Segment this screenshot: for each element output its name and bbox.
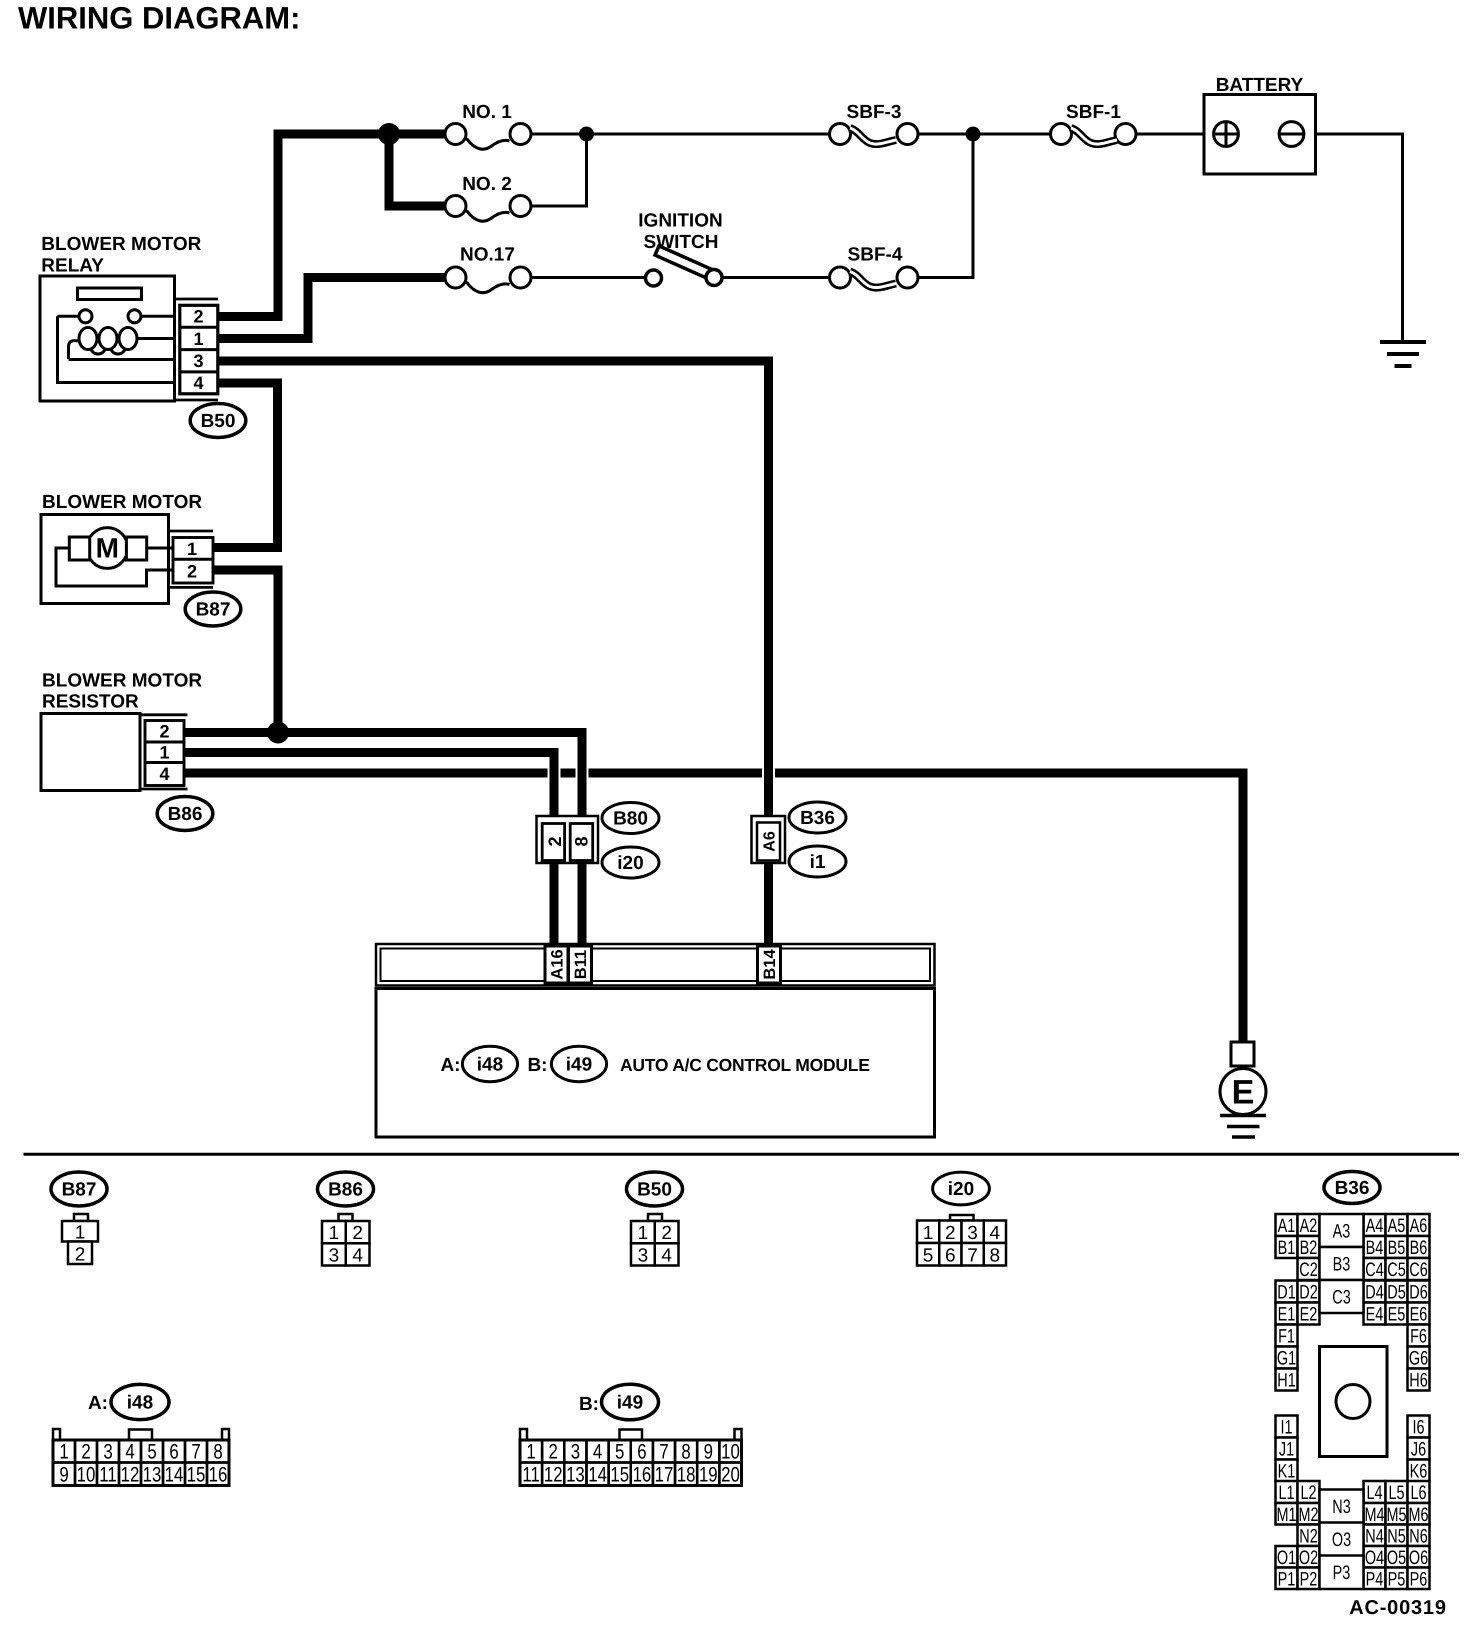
svg-text:SWITCH: SWITCH	[644, 232, 719, 253]
svg-text:3: 3	[967, 1223, 978, 1244]
svg-text:B87: B87	[196, 600, 231, 621]
svg-text:3: 3	[103, 1441, 112, 1464]
svg-text:15: 15	[610, 1464, 629, 1487]
svg-text:14: 14	[588, 1464, 607, 1487]
svg-text:3: 3	[329, 1245, 340, 1266]
svg-text:E2: E2	[1300, 1304, 1318, 1326]
svg-text:NO. 1: NO. 1	[462, 102, 512, 123]
svg-text:8: 8	[572, 836, 592, 846]
svg-text:8: 8	[990, 1245, 1001, 1266]
svg-text:4: 4	[193, 373, 203, 393]
svg-text:AC-00319: AC-00319	[1349, 1597, 1447, 1619]
svg-text:4: 4	[593, 1441, 603, 1464]
svg-text:16: 16	[633, 1464, 652, 1487]
svg-text:2: 2	[81, 1441, 90, 1464]
svg-text:N5: N5	[1387, 1525, 1406, 1547]
svg-text:O1: O1	[1277, 1547, 1296, 1569]
svg-text:1: 1	[638, 1223, 649, 1244]
svg-text:B50: B50	[637, 1180, 672, 1201]
svg-text:SBF-4: SBF-4	[848, 245, 903, 266]
svg-text:C3: C3	[1332, 1287, 1350, 1309]
svg-text:L1: L1	[1278, 1482, 1294, 1504]
svg-text:IGNITION: IGNITION	[638, 211, 722, 232]
svg-text:2: 2	[193, 307, 203, 327]
svg-text:L2: L2	[1300, 1482, 1316, 1504]
svg-text:G1: G1	[1277, 1348, 1296, 1370]
svg-text:E5: E5	[1388, 1304, 1406, 1326]
svg-text:14: 14	[165, 1464, 184, 1487]
svg-text:D5: D5	[1387, 1282, 1406, 1304]
svg-text:B4: B4	[1366, 1237, 1384, 1259]
svg-text:2: 2	[187, 561, 197, 581]
svg-text:AUTO A/C CONTROL MODULE: AUTO A/C CONTROL MODULE	[620, 1055, 870, 1075]
svg-text:1: 1	[329, 1223, 340, 1244]
svg-text:B86: B86	[168, 804, 203, 825]
svg-text:5: 5	[615, 1441, 624, 1464]
svg-text:A5: A5	[1388, 1215, 1406, 1237]
svg-text:A6: A6	[761, 831, 778, 852]
svg-text:I1: I1	[1280, 1417, 1292, 1439]
svg-text:5: 5	[147, 1441, 156, 1464]
svg-text:B11: B11	[572, 950, 590, 979]
svg-text:A16: A16	[548, 949, 566, 979]
svg-text:B36: B36	[800, 808, 835, 829]
svg-text:P1: P1	[1278, 1568, 1296, 1590]
svg-text:10: 10	[77, 1464, 96, 1487]
svg-text:B5: B5	[1388, 1237, 1406, 1259]
svg-text:7: 7	[191, 1441, 200, 1464]
svg-text:H6: H6	[1409, 1370, 1427, 1392]
svg-text:18: 18	[677, 1464, 696, 1487]
svg-text:SBF-3: SBF-3	[847, 102, 902, 123]
svg-text:i49: i49	[617, 1393, 643, 1414]
svg-text:WIRING DIAGRAM:: WIRING DIAGRAM:	[18, 1, 300, 36]
svg-text:B36: B36	[1335, 1178, 1370, 1199]
svg-text:5: 5	[923, 1245, 934, 1266]
svg-text:P6: P6	[1410, 1568, 1428, 1590]
svg-text:M: M	[96, 533, 119, 564]
svg-text:B:: B:	[527, 1055, 547, 1076]
svg-text:A1: A1	[1278, 1215, 1296, 1237]
svg-text:B3: B3	[1333, 1254, 1351, 1276]
svg-text:G6: G6	[1409, 1348, 1428, 1370]
svg-text:4: 4	[159, 764, 169, 784]
svg-text:P2: P2	[1300, 1568, 1318, 1590]
svg-text:i48: i48	[127, 1393, 153, 1414]
svg-text:P4: P4	[1366, 1568, 1384, 1590]
svg-text:D1: D1	[1277, 1282, 1295, 1304]
svg-text:M1: M1	[1276, 1504, 1296, 1526]
svg-text:A6: A6	[1410, 1215, 1428, 1237]
svg-text:D4: D4	[1365, 1282, 1384, 1304]
svg-text:N4: N4	[1365, 1525, 1384, 1547]
svg-text:15: 15	[187, 1464, 206, 1487]
svg-text:L4: L4	[1366, 1482, 1382, 1504]
svg-text:N6: N6	[1409, 1525, 1427, 1547]
svg-text:B80: B80	[613, 809, 648, 830]
svg-text:NO.17: NO.17	[460, 245, 515, 266]
svg-text:6: 6	[945, 1245, 956, 1266]
svg-text:3: 3	[638, 1245, 649, 1266]
svg-text:1: 1	[159, 743, 169, 763]
svg-text:C5: C5	[1387, 1259, 1406, 1281]
svg-text:BLOWER MOTOR: BLOWER MOTOR	[42, 492, 202, 513]
svg-text:11: 11	[99, 1464, 116, 1487]
svg-text:2: 2	[352, 1223, 363, 1244]
svg-text:17: 17	[655, 1464, 674, 1487]
svg-text:A:: A:	[88, 1393, 108, 1414]
svg-text:2: 2	[545, 836, 565, 846]
svg-text:11: 11	[522, 1464, 539, 1487]
svg-text:M5: M5	[1386, 1504, 1406, 1526]
svg-text:B86: B86	[328, 1180, 363, 1201]
svg-text:E4: E4	[1366, 1304, 1384, 1326]
svg-text:13: 13	[143, 1464, 162, 1487]
svg-text:i48: i48	[477, 1055, 503, 1076]
svg-text:4: 4	[990, 1223, 1001, 1244]
svg-text:2: 2	[549, 1441, 558, 1464]
svg-text:M4: M4	[1364, 1504, 1384, 1526]
svg-text:A3: A3	[1333, 1221, 1351, 1243]
svg-text:P3: P3	[1333, 1562, 1351, 1584]
svg-text:A2: A2	[1300, 1215, 1318, 1237]
svg-text:6: 6	[169, 1441, 178, 1464]
svg-text:16: 16	[209, 1464, 228, 1487]
svg-text:P5: P5	[1388, 1568, 1406, 1590]
svg-text:B6: B6	[1410, 1237, 1428, 1259]
svg-text:E: E	[1232, 1074, 1255, 1112]
svg-text:N2: N2	[1299, 1525, 1317, 1547]
svg-text:RELAY: RELAY	[41, 256, 104, 277]
svg-text:H1: H1	[1277, 1370, 1295, 1392]
svg-text:F6: F6	[1410, 1326, 1427, 1348]
svg-text:M6: M6	[1408, 1504, 1428, 1526]
svg-text:O2: O2	[1299, 1547, 1318, 1569]
svg-text:1: 1	[526, 1441, 535, 1464]
svg-text:6: 6	[637, 1441, 646, 1464]
svg-text:B:: B:	[579, 1394, 599, 1415]
svg-text:O5: O5	[1387, 1547, 1406, 1569]
svg-text:C4: C4	[1365, 1259, 1384, 1281]
svg-text:7: 7	[659, 1441, 668, 1464]
svg-text:A4: A4	[1366, 1215, 1384, 1237]
svg-text:i49: i49	[566, 1055, 592, 1076]
svg-text:1: 1	[59, 1441, 68, 1464]
svg-text:9: 9	[704, 1441, 713, 1464]
svg-text:BATTERY: BATTERY	[1216, 75, 1304, 96]
svg-text:4: 4	[352, 1245, 363, 1266]
svg-text:2: 2	[945, 1223, 956, 1244]
svg-text:SBF-1: SBF-1	[1066, 102, 1121, 123]
svg-text:B14: B14	[761, 949, 779, 980]
svg-text:RESISTOR: RESISTOR	[42, 692, 139, 713]
svg-text:C2: C2	[1299, 1259, 1317, 1281]
svg-text:B87: B87	[62, 1180, 97, 1201]
svg-text:L5: L5	[1388, 1482, 1404, 1504]
svg-text:i1: i1	[810, 852, 826, 873]
svg-text:i20: i20	[617, 853, 643, 874]
svg-text:1: 1	[923, 1223, 934, 1244]
svg-text:4: 4	[661, 1245, 672, 1266]
svg-text:12: 12	[544, 1464, 563, 1487]
svg-text:BLOWER MOTOR: BLOWER MOTOR	[42, 671, 202, 692]
svg-text:D2: D2	[1299, 1282, 1317, 1304]
svg-text:J6: J6	[1411, 1439, 1426, 1461]
svg-text:A:: A:	[440, 1055, 460, 1076]
svg-text:E1: E1	[1278, 1304, 1296, 1326]
svg-text:L6: L6	[1410, 1482, 1426, 1504]
svg-text:O6: O6	[1409, 1547, 1428, 1569]
svg-text:2: 2	[159, 722, 169, 742]
svg-text:12: 12	[121, 1464, 140, 1487]
svg-text:13: 13	[566, 1464, 585, 1487]
svg-text:C6: C6	[1409, 1259, 1427, 1281]
svg-text:9: 9	[59, 1464, 68, 1487]
svg-text:7: 7	[967, 1245, 978, 1266]
svg-text:B50: B50	[201, 411, 236, 432]
svg-text:O3: O3	[1332, 1529, 1351, 1551]
svg-text:4: 4	[125, 1441, 135, 1464]
svg-text:NO. 2: NO. 2	[462, 174, 512, 195]
svg-text:M2: M2	[1298, 1504, 1318, 1526]
svg-text:N3: N3	[1332, 1496, 1350, 1518]
svg-text:B1: B1	[1278, 1237, 1296, 1259]
svg-text:8: 8	[213, 1441, 222, 1464]
svg-text:K6: K6	[1410, 1461, 1428, 1483]
svg-text:3: 3	[571, 1441, 580, 1464]
svg-text:D6: D6	[1409, 1282, 1427, 1304]
svg-text:8: 8	[681, 1441, 690, 1464]
svg-text:10: 10	[721, 1441, 740, 1464]
svg-text:20: 20	[721, 1464, 740, 1487]
svg-text:i20: i20	[948, 1179, 974, 1200]
svg-text:1: 1	[187, 539, 197, 559]
svg-text:K1: K1	[1278, 1461, 1296, 1483]
svg-text:3: 3	[193, 351, 203, 371]
svg-text:I6: I6	[1412, 1417, 1424, 1439]
svg-text:F1: F1	[1278, 1326, 1295, 1348]
svg-text:O4: O4	[1365, 1547, 1384, 1569]
svg-text:1: 1	[193, 329, 203, 349]
svg-text:E6: E6	[1410, 1304, 1428, 1326]
svg-text:19: 19	[699, 1464, 718, 1487]
svg-text:2: 2	[661, 1223, 672, 1244]
svg-text:J1: J1	[1279, 1439, 1294, 1461]
svg-text:2: 2	[75, 1245, 86, 1266]
svg-text:B2: B2	[1300, 1237, 1318, 1259]
svg-text:BLOWER MOTOR: BLOWER MOTOR	[41, 234, 201, 255]
